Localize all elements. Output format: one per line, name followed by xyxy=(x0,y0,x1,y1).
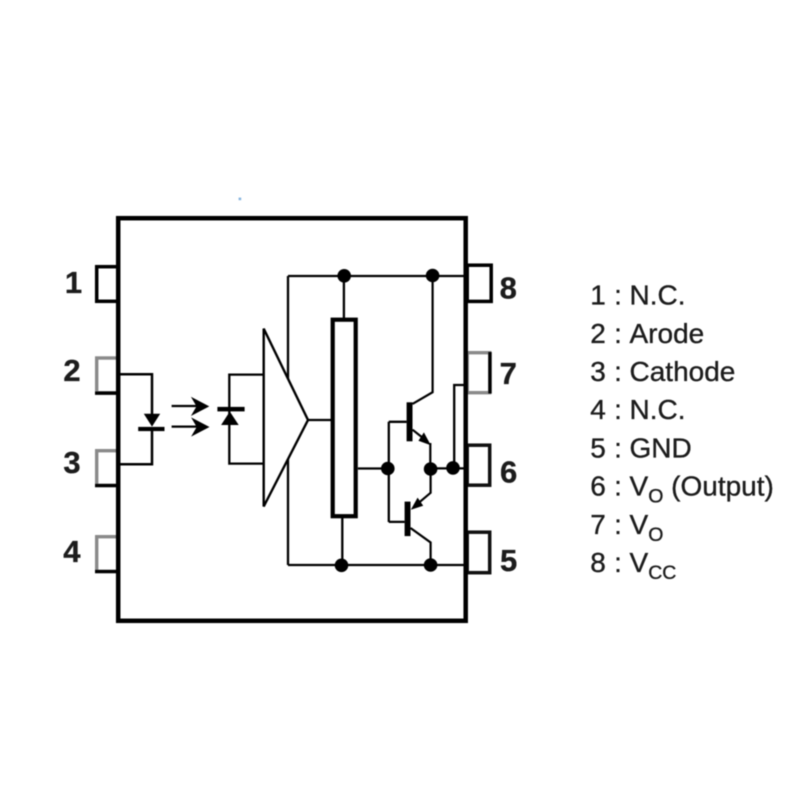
svg-text:8: 8 xyxy=(500,271,517,306)
amp output wire xyxy=(308,419,331,421)
transistor Q1 emitter arrowhead xyxy=(418,432,430,445)
svg-text:8: 8 xyxy=(590,547,606,578)
pin 2 box black bottom edge xyxy=(95,392,120,395)
node junction dot at base node xyxy=(381,462,395,476)
IC body outline xyxy=(118,218,466,621)
svg-text:1: 1 xyxy=(65,265,82,300)
pin 6 box xyxy=(467,445,490,485)
wire: LED cathode to pin3 xyxy=(120,430,152,464)
svg-text:Cathode: Cathode xyxy=(630,356,736,387)
svg-text::: : xyxy=(614,356,622,387)
pin 5 box xyxy=(467,532,490,573)
wire Q1 emitter to node xyxy=(429,443,431,469)
LED D1 cathode bar xyxy=(138,427,164,431)
node junction dot top-left xyxy=(337,269,351,283)
transistor Q2 base wire xyxy=(389,521,405,523)
resistor R1 body xyxy=(333,320,356,517)
node junction dot bottom-left xyxy=(335,559,349,573)
pin 2 box xyxy=(97,358,119,393)
pin 7 box black right edge xyxy=(488,352,491,394)
transistor Q2 emitter arrowhead xyxy=(411,498,423,510)
svg-text:5: 5 xyxy=(500,543,517,578)
transistor Q1 base wire xyxy=(389,421,407,423)
node junction dot bottom-right xyxy=(424,558,438,572)
node junction dot pin7 xyxy=(446,461,460,475)
pin 4 box xyxy=(97,537,119,572)
svg-text:1: 1 xyxy=(590,280,606,311)
node junction dot output xyxy=(424,462,438,476)
light arrow 1 shaft xyxy=(172,405,197,407)
svg-text:N.C.: N.C. xyxy=(630,280,686,311)
svg-text:Arode: Arode xyxy=(630,318,705,349)
transistor Q2 base bar xyxy=(405,502,411,536)
top rail wire (VCC) xyxy=(288,275,466,277)
svg-text:7: 7 xyxy=(500,356,517,391)
svg-text:3: 3 xyxy=(590,356,606,387)
wire resistor top to rail xyxy=(343,276,345,318)
transistor Q1 base bar xyxy=(407,402,413,441)
photodiode triangle xyxy=(221,412,239,426)
svg-text::: : xyxy=(614,509,622,540)
wire node to pin 6 xyxy=(431,467,464,469)
light arrow 1 head xyxy=(191,397,209,416)
pin 3 box black bottom edge xyxy=(95,484,120,487)
photodiode cathode bar xyxy=(217,407,244,412)
blue speck artifact xyxy=(239,198,242,201)
pin 7 box xyxy=(467,353,490,393)
svg-text::: : xyxy=(614,394,622,425)
svg-text:2: 2 xyxy=(63,353,80,388)
light arrow 2 shaft xyxy=(172,425,197,427)
LED D1 triangle (anode) xyxy=(144,414,160,427)
pin 8 box xyxy=(467,265,491,301)
svg-text:N.C.: N.C. xyxy=(630,394,686,425)
svg-text:2: 2 xyxy=(590,318,606,349)
transistor Q1 emitter wire xyxy=(413,430,429,442)
svg-text:4: 4 xyxy=(590,394,606,425)
svg-text:4: 4 xyxy=(63,534,81,569)
node junction dot top-right xyxy=(426,269,440,283)
svg-text:6: 6 xyxy=(500,455,517,490)
svg-text:7: 7 xyxy=(590,509,606,540)
base node vertical wire xyxy=(388,422,390,522)
pin 1 box xyxy=(97,267,119,302)
svg-text:3: 3 xyxy=(63,445,80,480)
pin 4 box black bottom edge xyxy=(95,570,120,573)
svg-text::: : xyxy=(614,471,622,502)
wire node to Q2 emitter xyxy=(414,469,431,507)
transistor Q2 collector wire xyxy=(411,528,431,565)
wire: pin2 to LED anode xyxy=(120,374,152,414)
svg-text::: : xyxy=(614,280,622,311)
svg-text::: : xyxy=(614,547,622,578)
wire resistor bottom to rail xyxy=(341,518,343,565)
transistor Q1 collector wire xyxy=(413,276,433,404)
svg-text:GND: GND xyxy=(630,432,692,463)
wire pin 7 to output node xyxy=(454,385,466,468)
svg-text:6: 6 xyxy=(590,471,606,502)
wire resistor right to node xyxy=(358,467,388,469)
photodiode bracket wires xyxy=(229,375,263,464)
bottom rail wire (GND) xyxy=(288,564,466,566)
svg-text::: : xyxy=(614,432,622,463)
pin 3 box xyxy=(97,451,119,486)
op-amp U1 triangle xyxy=(264,329,308,507)
svg-text::: : xyxy=(614,318,622,349)
vertical supply wire behind amp xyxy=(287,276,289,565)
light arrow 2 head xyxy=(191,417,209,436)
svg-text:5: 5 xyxy=(590,432,606,463)
